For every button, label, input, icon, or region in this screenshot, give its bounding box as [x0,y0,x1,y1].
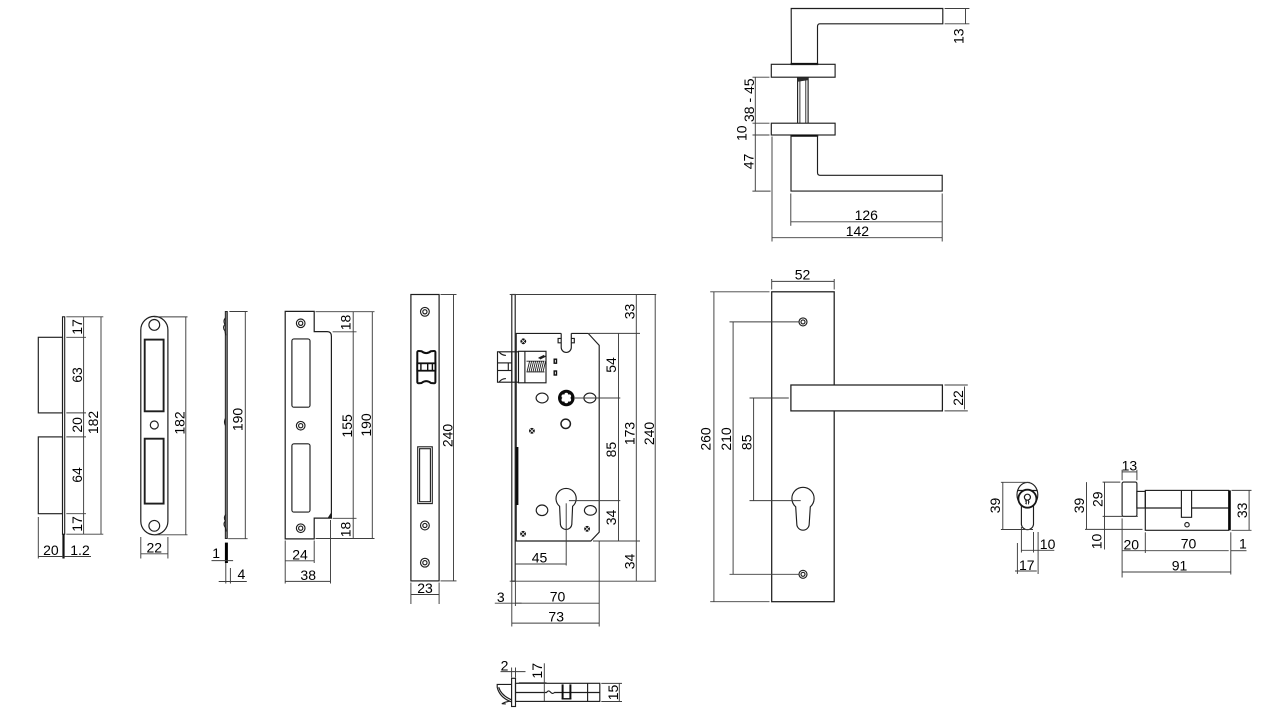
euro cylinder hole [556,488,576,529]
deadbolt edge-on [516,447,519,505]
dim 39 extension lines [1001,481,1030,483]
svg-text:260: 260 [698,427,714,451]
svg-text:64: 64 [69,467,85,483]
oval hole right of hub [584,393,596,403]
svg-text:13: 13 [1122,458,1138,474]
dim 1 line [212,560,234,562]
latch shaft through faceplate [512,352,519,382]
dim 10 line [1021,549,1054,551]
oval hole right of euro [584,506,596,516]
latch body [516,683,600,701]
dim 33 extension lines [1232,489,1252,491]
svg-text:17: 17 [69,516,85,532]
faceplate edge-on [511,295,515,582]
spindle square bar [798,77,809,123]
top screw hole [149,320,160,331]
svg-text:240: 240 [641,422,657,446]
lower slot [145,439,164,504]
svg-text:2: 2 [501,657,509,673]
dim 2 line [501,671,526,673]
thumbturn knob outline (end view) [1017,482,1038,507]
dim 240 extension lines [441,294,457,296]
latch bolt spool outline [417,351,435,383]
svg-text:20: 20 [43,542,59,558]
dim 142 extension line [771,137,773,242]
latch tail box [519,351,547,383]
dim 23 extension lines [410,583,412,605]
svg-text:15: 15 [605,685,621,701]
small slot upper [554,359,556,363]
rivet bottom-left [520,531,526,537]
body mid line [1145,507,1228,509]
dim 38-45 line [754,77,756,123]
small slot lower [554,371,556,375]
svg-text:34: 34 [621,554,637,570]
dim 182 extension lines [154,316,187,318]
svg-text:85: 85 [603,442,619,458]
svg-text:70: 70 [1181,536,1197,552]
euro cylinder hole [792,487,814,530]
dim 39 line [1086,482,1088,529]
dim 70 line [515,602,599,604]
dim 54-85-34 chain line [618,333,620,541]
latch tail divider [524,351,526,383]
dim 155 line [352,332,354,519]
dim 39 extension line [1085,528,1143,530]
dim 210 extension lines [730,321,799,323]
upper slot [145,340,164,412]
svg-text:126: 126 [855,207,879,223]
dim 240 line [654,295,656,582]
dim 1 line [1231,550,1247,552]
latch spring coil [527,356,546,372]
svg-text:155: 155 [339,414,355,438]
top screw hole [296,319,305,328]
dim 190 extension line bottom [316,538,375,540]
rivet mid-left [529,428,535,434]
svg-text:10: 10 [1088,534,1104,550]
dim 85 line [753,398,755,501]
svg-text:1: 1 [1239,536,1247,552]
dim 22 line [964,387,966,410]
dim 52 line [772,280,835,282]
dim 23 line [411,594,439,596]
plate edge double line [225,312,227,539]
key plug [1024,494,1030,504]
dim 22 line [141,553,168,555]
svg-text:240: 240 [440,424,456,448]
svg-text:17: 17 [69,319,85,335]
svg-text:38 - 45: 38 - 45 [741,78,757,122]
dim 13 line [1122,471,1137,473]
dim 182 line [185,317,187,535]
dim 52 extension lines [771,279,773,290]
dim 10 line [1104,516,1106,549]
bottom screw hole [149,520,160,531]
svg-text:17: 17 [529,663,545,679]
svg-text:39: 39 [1071,498,1087,514]
svg-text:142: 142 [846,223,870,239]
svg-text:91: 91 [1172,557,1188,573]
cam disc edge [1228,490,1230,530]
svg-text:182: 182 [85,411,101,435]
svg-text:33: 33 [621,304,637,320]
svg-text:47: 47 [741,154,757,170]
svg-text:3: 3 [497,589,505,605]
svg-text:33: 33 [1234,502,1250,518]
top screw hole [799,318,807,326]
dim 20 bottom line [38,556,63,558]
dim 13 line [965,9,967,24]
dim 39 line [1002,482,1004,529]
dim 33 line [1248,490,1250,530]
dim 10 extension line [753,134,770,136]
small circle below hub [561,419,570,428]
middle hole [150,421,158,429]
svg-text:13: 13 [951,28,967,44]
faceplate bottom extension line [510,580,657,582]
dim 126 line [791,221,942,223]
collar [562,684,572,698]
dim 18 top extension lines [316,311,375,313]
dim 17 line [1015,570,1037,572]
dim 20 bottom extension lines [37,517,39,559]
lower bent tab [38,437,62,514]
dim 38 line [285,580,330,582]
lower rosette [771,123,835,135]
screw hole [1185,523,1189,527]
dim 29 line [1104,482,1106,516]
svg-text:10: 10 [1040,536,1056,552]
upper slot [292,339,310,407]
deadbolt slot outer [418,447,433,504]
middle bump [224,419,227,426]
dim 18 top line [352,312,354,332]
lip corner arrow [327,513,331,519]
dim 13 extension lines [945,8,970,10]
rivet bottom-right [584,526,590,532]
dim 4 extension lines [225,563,227,584]
dim 17 line [543,663,545,701]
cylinder body [1145,490,1228,530]
svg-text:38: 38 [300,567,316,583]
euro hole centerline vertical [565,503,567,565]
dim 10 extension lines [1020,527,1022,553]
dim 47 line [754,135,756,191]
dim 18 bottom extension line [333,517,357,519]
dim 24 extension lines [284,541,286,584]
svg-text:20: 20 [69,417,85,433]
svg-text:173: 173 [621,422,637,446]
dim 260 line [713,292,715,602]
dim 22 extension lines [945,384,968,386]
rivet top-left [520,338,526,344]
dim 260 extension lines [710,291,769,293]
svg-text:182: 182 [172,411,188,435]
bottom screw hole [296,524,305,533]
case top extension line [589,332,640,334]
latch bolt middle band [417,363,435,370]
svg-text:210: 210 [718,427,734,451]
knob chord line [1018,490,1038,492]
dim 190 line [244,312,246,539]
svg-text:70: 70 [550,589,566,605]
dim 10 line [754,123,756,135]
svg-text:1.2: 1.2 [70,542,90,558]
middle screw hole [421,521,430,530]
spindle hub [558,390,575,407]
shaft divider [587,683,589,701]
svg-text:22: 22 [147,539,163,555]
lower lever neck top thick line [791,135,819,137]
stadium plate outline [141,316,168,534]
dim 1.2 line [65,556,91,558]
dim 182 line [100,317,102,534]
dim 91 extension line [1230,532,1232,574]
plate body (edge-on) [63,317,65,534]
latch head (edge view, left of faceplate) [498,352,512,382]
knob neck [1137,491,1145,508]
dim 240 line [453,295,455,581]
svg-text:20: 20 [1124,536,1140,552]
euro stem (end view) [1021,506,1033,530]
U-slot side tabs [558,338,574,342]
svg-text:29: 29 [1089,491,1105,507]
body mid line with break wave [516,691,600,694]
dim 190 line [371,312,373,539]
dim 24 line [285,560,314,562]
latch flange (faceplate) [512,678,516,706]
svg-text:39: 39 [987,498,1003,514]
latch bevel head [497,684,511,704]
dim 4 line [219,581,247,583]
dim 13 extension lines [1121,470,1123,480]
dim 126 extension lines [790,194,792,226]
lever bar [791,385,943,411]
bottom screw hole [421,558,430,567]
svg-text:22: 22 [950,390,966,406]
cylinder body circle [1018,490,1036,508]
svg-text:45: 45 [532,550,548,566]
lower slot [292,444,310,512]
lock faceplate outline [411,295,439,581]
thumbturn knob (side view) [1122,482,1137,516]
svg-text:85: 85 [739,434,755,450]
dim 45 line [515,563,566,565]
angled strike plate outline [285,311,331,539]
upper lever neck base thick line [791,63,819,65]
dim 1 tick bar [225,543,228,563]
faceplate top extension line [510,294,657,296]
dim 47 extension line [752,190,770,192]
dim 38 extension line [330,520,332,584]
dim 22 extension lines [140,537,142,559]
lock case outline [516,333,599,541]
top screw hole [421,307,430,316]
chain extension lines [66,316,103,318]
oval hole left of euro [536,505,548,516]
dim 33-173-34 chain line [635,295,637,582]
svg-text:52: 52 [795,267,811,283]
svg-text:18: 18 [337,522,353,538]
svg-text:4: 4 [238,566,246,582]
svg-text:34: 34 [603,510,619,526]
dim 38-45 extension lines [753,76,770,78]
oval hole left of hub [536,393,548,403]
svg-text:54: 54 [603,357,619,373]
cam slot [1181,490,1191,517]
svg-text:23: 23 [417,580,433,596]
bottom screw hole [799,570,807,578]
case bottom extension line [593,540,640,542]
dim 29 extension lines [1103,481,1121,483]
svg-text:18: 18 [337,315,353,331]
backplate outline [772,292,835,602]
dim 3 line [495,602,522,604]
svg-text:10: 10 [734,125,750,141]
svg-text:1: 1 [212,545,220,561]
dim 142 line [772,237,942,239]
middle screw hole [296,421,305,430]
top lip notch [224,318,226,335]
upper bent tab [38,337,62,413]
spindle guide U-slot [561,333,571,352]
dim 20 line [1122,550,1145,552]
dim 85 extension lines [750,397,789,399]
dim 18 bottom line [352,518,354,538]
svg-text:17: 17 [1019,557,1035,573]
dim 2 tick lines [511,668,513,678]
dim 17 extension line [519,682,547,684]
upper rosette [771,64,835,77]
spindle centerline [575,397,621,399]
dim 210 line [732,322,734,574]
dim 17 extension lines [1016,543,1018,574]
svg-text:190: 190 [229,408,245,432]
faceplate extension lines below [511,581,513,626]
dim 73 line [512,622,599,624]
dim 91 line [1122,571,1231,573]
svg-text:63: 63 [69,367,85,383]
chain dim line [83,317,85,534]
svg-text:190: 190 [358,413,374,437]
dim 70 line [1145,550,1228,552]
dim 15 line [618,683,620,701]
euro hole centerline horizontal [569,500,620,502]
case right edge extension line below [598,541,600,627]
dim 20 extension lines [1121,518,1123,577]
dim 190 extension lines [229,311,247,313]
deadbolt slot inner [420,449,431,502]
lower lever handle outline [791,135,942,191]
dim 15 extension lines [601,682,622,684]
svg-text:24: 24 [292,547,308,563]
bottom lip notch [224,515,226,532]
upper lever handle outline [791,9,943,65]
svg-text:73: 73 [548,609,564,625]
